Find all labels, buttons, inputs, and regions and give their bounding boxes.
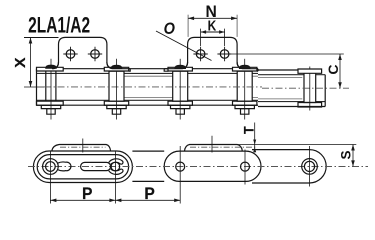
- pin circle at plan P2: [111, 162, 120, 171]
- attachment hump on stadium 1: [52, 145, 111, 152]
- dimension K line: [201, 31, 225, 33]
- washer blob at P1: [46, 65, 56, 68]
- C arrow top: [338, 54, 342, 60]
- dimension X line: [30, 38, 32, 88]
- S arrow bottom: [351, 160, 355, 166]
- P arrow at P1: [50, 199, 56, 203]
- chain centerline (side view, left block): [44, 86, 262, 88]
- clip middle slot: [81, 162, 111, 170]
- plan chain centerline: [28, 166, 368, 168]
- pin P1 centerline: [50, 59, 52, 120]
- top washer bar at P2: [104, 67, 128, 71]
- link plate outer edges (right block): [258, 70, 325, 107]
- dimension S line: [352, 145, 354, 167]
- inner link plate neck (between stadium 1 and 2): [132, 151, 164, 181]
- bottom washer bar at P1: [37, 101, 64, 105]
- roller at P2: [109, 71, 124, 101]
- plan pin P1 extension line: [49, 151, 51, 204]
- top washer bar at P5: [298, 69, 322, 73]
- washer blob on flange at P3: [175, 65, 185, 68]
- C arrow bottom: [338, 82, 342, 88]
- pin circle at plan P4: [241, 162, 250, 171]
- outer link plate stadium 3 (end link): [252, 150, 326, 183]
- chain centerline (side view, right block): [262, 87, 349, 89]
- bottom washer bar at P5: [298, 103, 322, 108]
- T extension line: [254, 123, 256, 153]
- washer blob on flange at P4: [240, 65, 250, 68]
- chain left cut edge: [36, 69, 38, 106]
- attachment plate A1 face: [52, 37, 130, 68]
- K arrow right: [219, 30, 225, 33]
- plan pin P4 centerline mark: [244, 150, 246, 185]
- C hole-height extension line: [232, 53, 344, 55]
- pin P2 centerline: [116, 59, 118, 120]
- K extension line left: [200, 29, 202, 46]
- pin circle at plan P3: [176, 162, 185, 171]
- pin P1 body: [46, 71, 56, 102]
- roller at P4: [237, 71, 252, 101]
- attachment plate A1 left bend inner arc: [53, 62, 59, 68]
- clip dog-bone knob: [58, 162, 71, 171]
- N arrow right: [231, 17, 237, 21]
- N arrow left: [188, 17, 194, 21]
- bottom retainer plate at P2: [107, 105, 126, 108]
- svg-text:2LA1/A2: 2LA1/A2: [28, 14, 90, 38]
- attachment plate A2 left flange bottom: [164, 69, 168, 72]
- hump 2 top edge extension to S (long): [237, 144, 356, 146]
- attachment plate A1 right bend inner arc: [107, 62, 113, 68]
- K arrow left: [201, 30, 207, 33]
- pin end square at P3: [176, 109, 184, 115]
- svg-text:S: S: [339, 150, 354, 159]
- pin P3 centerline: [179, 59, 181, 120]
- bushing edges (left block inner segments): [124, 76, 258, 97]
- hole in A2 (right): [220, 50, 229, 59]
- pin end square at P1: [47, 109, 55, 115]
- dimension P line: [50, 199, 180, 201]
- stadium 1 inner contour: [37, 155, 128, 179]
- P arrows at P2: [109, 199, 121, 203]
- svg-text:O: O: [164, 20, 175, 38]
- svg-text:P: P: [82, 185, 93, 203]
- attachment hump on stadium 2: [185, 145, 243, 152]
- bottom retainer plate at P4: [235, 105, 254, 108]
- P5 vertical centerline: [309, 146, 311, 187]
- bottom retainer plate at P1: [41, 105, 60, 108]
- clip fork lower jaw: [109, 169, 123, 174]
- pin end square at P2: [112, 109, 120, 115]
- clip fork upper jaw: [109, 159, 123, 164]
- svg-text:K: K: [208, 17, 217, 34]
- svg-text:P: P: [144, 185, 155, 203]
- leader line from O to hole: [156, 31, 212, 61]
- X arrow bottom: [29, 81, 33, 87]
- outer link plate stadium 1 (attachment connecting link): [33, 151, 132, 183]
- attachment plate A2 left bend inner arc: [182, 62, 188, 68]
- plan pin P3 extension line: [179, 146, 181, 204]
- link plate inner edges (right block): [258, 75, 325, 102]
- bushing edges (right block inner segment): [258, 78, 302, 99]
- pin end square at P4: [241, 109, 249, 115]
- plan pin P2 extension line: [114, 151, 116, 204]
- hump 1 centerline: [60, 146, 106, 148]
- hole in A1 (right): [91, 50, 100, 59]
- bottom washer bar at P4: [233, 101, 257, 105]
- hump 2 centerline: [190, 146, 257, 148]
- attachment plate A2 right flange bottom: [257, 69, 258, 72]
- chain right cut edge: [324, 75, 326, 107]
- bottom retainer plate at P3: [171, 105, 190, 108]
- pin P4 centerline: [244, 59, 246, 120]
- hole in A1 (left): [66, 50, 75, 59]
- svg-text:X: X: [13, 57, 29, 67]
- hole in A2 (left): [196, 50, 205, 59]
- title underline / X top extension line: [24, 37, 59, 39]
- dimension N line: [188, 17, 237, 19]
- attachment 1 center mark: [82, 139, 84, 153]
- bottom washer bar at P3: [168, 101, 192, 105]
- washer blob on flange at P2: [111, 65, 121, 68]
- outer link plate stadium 2 (attachment link): [164, 151, 261, 181]
- N extension line right: [236, 15, 238, 37]
- top washer bar at P4: [233, 67, 257, 71]
- top washer bar at P1: [37, 67, 64, 71]
- S arrow top: [351, 145, 355, 151]
- pin P5 centerline: [309, 67, 311, 111]
- attachment plate A2 face: [164, 37, 258, 68]
- X bottom extension line: [24, 86, 44, 88]
- attachment plate A1 right flange bottom: [129, 69, 131, 72]
- dimension C line: [339, 54, 341, 88]
- svg-text:T: T: [241, 126, 257, 134]
- link plate outer edges (left block): [37, 69, 259, 106]
- pin-bush double circle at plan P5: [302, 159, 318, 175]
- T tick arrows: [253, 140, 256, 153]
- roller at P5: [304, 73, 316, 103]
- pin circle at plan P1: [46, 162, 56, 172]
- P arrow at P3: [174, 199, 180, 203]
- attachment 2 center mark: [211, 136, 213, 153]
- top washer bar at P3: [168, 67, 192, 71]
- X arrow top: [29, 38, 33, 44]
- bottom washer bar at P2: [104, 101, 128, 105]
- svg-text:C: C: [325, 65, 341, 75]
- spring clip end hole loop at plan P1: [43, 159, 59, 175]
- attachment plate A2 right bend inner arc: [237, 62, 243, 68]
- K extension line right: [224, 29, 226, 46]
- N extension line left: [187, 15, 189, 37]
- roller at P3: [173, 71, 188, 101]
- link plate inner edges (left block): [37, 73, 259, 100]
